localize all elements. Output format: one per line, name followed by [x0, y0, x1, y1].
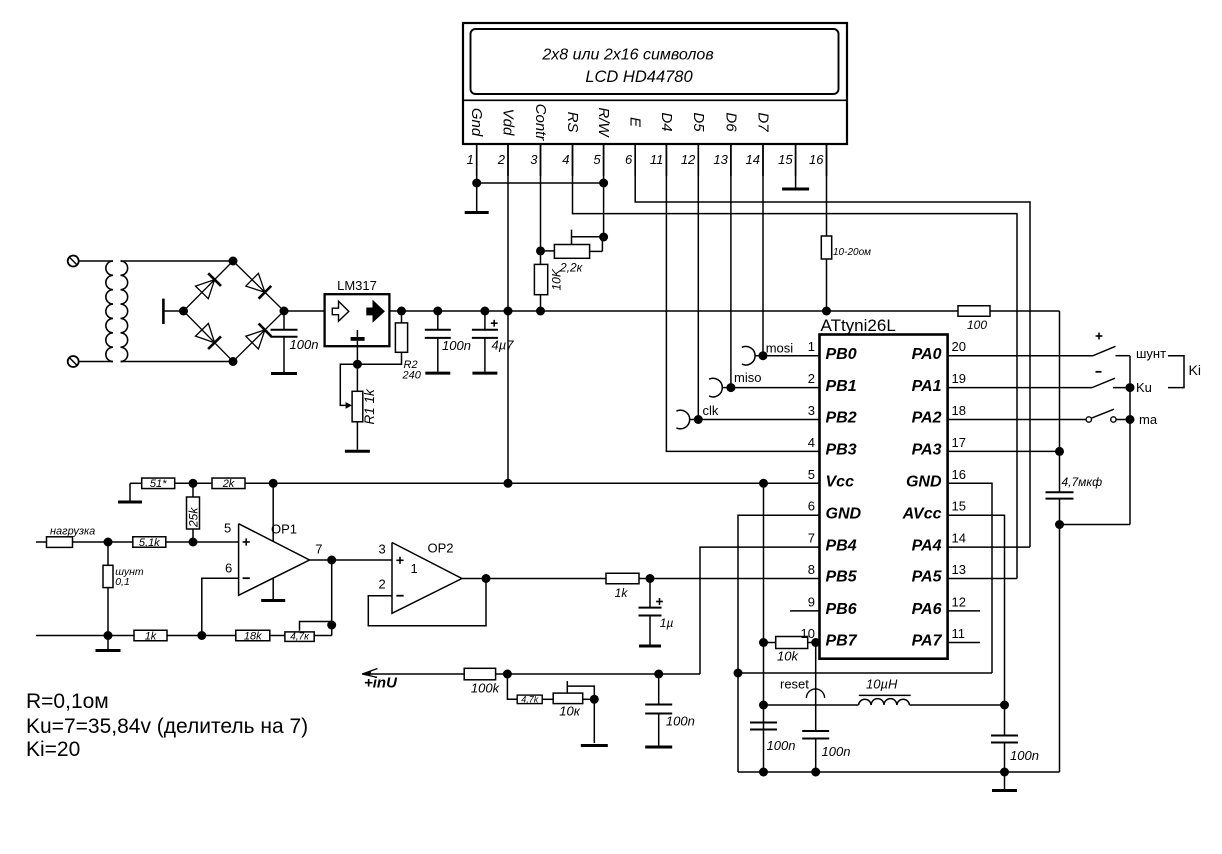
node 10k right: [590, 695, 599, 704]
svg-text:PB3: PB3: [826, 442, 857, 459]
svg-text:R/W: R/W: [595, 107, 612, 138]
wire resistor to rail: [826, 259, 828, 311]
regulator LM317 box: [325, 294, 390, 346]
svg-text:15: 15: [778, 152, 793, 167]
svg-text:D6: D6: [722, 112, 739, 132]
polarity + of 1u: [656, 601, 663, 603]
op-amp OP2: [392, 543, 462, 614]
svg-text:10µH: 10µH: [866, 677, 898, 692]
svg-text:reset: reset: [780, 677, 809, 692]
svg-text:2x8 или 2x16 символов: 2x8 или 2x16 символов: [541, 47, 713, 64]
wire OP1 ground stub: [272, 578, 274, 599]
svg-text:+inU: +inU: [364, 675, 398, 692]
wire 10k wiper tick: [566, 681, 568, 693]
svg-text:4µ7: 4µ7: [492, 338, 515, 353]
wire PA4 pin: [948, 546, 1030, 548]
svg-text:1µ: 1µ: [660, 616, 674, 630]
node 1u cap junction: [646, 574, 655, 583]
resistor 1k output: [606, 573, 639, 584]
ground below 4u7: [472, 372, 497, 375]
svg-text:6: 6: [225, 561, 232, 576]
resistor R2 240: [401, 311, 403, 323]
potentiometer R1 1k: [356, 364, 358, 391]
svg-text:5,1k: 5,1k: [139, 537, 160, 549]
wire 100 to corner: [990, 310, 1060, 312]
node 10k left: [759, 638, 768, 647]
svg-text:14: 14: [746, 152, 760, 167]
node 100n junction inU: [654, 670, 663, 679]
node feedback left: [197, 631, 206, 640]
node GND T: [734, 669, 743, 678]
transformer primary winding: [106, 261, 113, 362]
wire PB5 pin: [650, 578, 820, 580]
ground below OP1: [261, 599, 285, 602]
svg-text:16: 16: [809, 152, 824, 167]
svg-text:16: 16: [952, 467, 966, 482]
wire ma contact: [1116, 419, 1130, 421]
node clk: [694, 415, 703, 424]
capacitor 100n input: [283, 311, 285, 330]
svg-text:11: 11: [952, 626, 966, 641]
arrow +inU: [362, 673, 464, 675]
node ma: [1126, 415, 1135, 424]
svg-text:15: 15: [952, 499, 966, 514]
node Vdd Vcc-line junction: [504, 479, 513, 488]
ground below 100n: [425, 372, 450, 375]
wire R/W column: [603, 144, 605, 237]
svg-text:4: 4: [562, 152, 569, 167]
svg-text:GND: GND: [906, 474, 942, 491]
node bridge right: [280, 307, 289, 316]
wire Vcc net: [245, 482, 820, 484]
ground below LCD pin1: [465, 211, 489, 214]
wire bridge left to bar: [163, 310, 183, 312]
diode bridge lower-right: [246, 330, 265, 349]
resistor shunt 0,1: [107, 542, 109, 565]
capacitor 100n AVcc: [1004, 705, 1006, 736]
svg-text:PA3: PA3: [912, 442, 942, 459]
node 10K rail junction: [536, 307, 545, 316]
wire Vcc to inductor: [764, 704, 859, 706]
svg-text:0,1: 0,1: [115, 576, 130, 588]
ground below R1: [345, 450, 370, 453]
svg-text:D5: D5: [690, 112, 707, 132]
svg-text:1k: 1k: [615, 586, 629, 600]
svg-text:R1 1k: R1 1k: [362, 388, 377, 425]
wire secondary to bridge top: [121, 260, 234, 262]
wire cap to ground rail: [1059, 499, 1061, 772]
wire PA6 stub: [948, 610, 980, 612]
ground below 10k: [581, 744, 608, 747]
wire Gnd-R/W tie: [477, 182, 604, 184]
node PA3 cap junction: [1055, 447, 1064, 456]
terminal input top: [68, 256, 79, 267]
node Vcc inductor junction: [759, 701, 768, 710]
wire ground rail bottom: [738, 771, 1060, 773]
inductor 10uH: [859, 699, 910, 705]
svg-text:17: 17: [952, 435, 966, 450]
svg-text:Vcc: Vcc: [826, 474, 855, 491]
diode bridge lower-left: [196, 324, 215, 343]
node switch common junction: [1055, 520, 1064, 529]
ground symbol bottom: [1004, 772, 1006, 789]
svg-text:2: 2: [497, 152, 506, 167]
svg-text:5: 5: [224, 521, 231, 536]
svg-text:100n: 100n: [442, 338, 471, 353]
wire terminal to primary: [79, 260, 113, 262]
wire PA2 pin: [948, 419, 1087, 421]
pad mosi: [742, 346, 755, 365]
node 25k top: [189, 479, 198, 488]
switch contact circle right: [1111, 417, 1116, 422]
svg-text:13: 13: [713, 152, 728, 167]
svg-text:8: 8: [808, 562, 815, 577]
svg-text:PB4: PB4: [826, 537, 857, 554]
svg-text:Ku: Ku: [1136, 380, 1152, 395]
trimmer 2,2k contrast: [541, 250, 555, 252]
node 100n rail: [433, 307, 442, 316]
svg-text:Ku=7=35,84v (делитель на 7): Ku=7=35,84v (делитель на 7): [26, 715, 308, 738]
wire shunt contact: [1116, 355, 1131, 357]
svg-text:2: 2: [379, 577, 386, 592]
wire OP2 output: [462, 578, 606, 580]
node bridge bottom: [229, 357, 238, 366]
capacitor 1u electrolytic: [649, 579, 651, 608]
wire OP1 feedback drop: [331, 560, 333, 636]
svg-text:100n: 100n: [1010, 748, 1039, 763]
svg-text:PB1: PB1: [826, 378, 857, 395]
svg-text:14: 14: [952, 531, 966, 546]
wire D5 to PB2: [697, 144, 699, 420]
svg-text:R=0,1ом: R=0,1ом: [26, 690, 109, 713]
wire Gnd pin1 down: [476, 144, 478, 211]
wire Vdd column: [507, 144, 509, 483]
svg-text:mosi: mosi: [766, 341, 794, 356]
wire LM317 output to rail: [390, 310, 959, 312]
pad miso: [709, 378, 722, 397]
svg-text:11: 11: [650, 152, 664, 167]
LCD pin 2 lead: [507, 144, 509, 176]
svg-text:6: 6: [625, 152, 633, 167]
svg-text:4,7к: 4,7к: [290, 632, 310, 643]
node Vcc decoupling junction: [759, 479, 768, 488]
LCD screen area: [471, 29, 839, 94]
resistor 10-20om backlight: [821, 236, 831, 259]
svg-text:100n: 100n: [290, 337, 319, 352]
node AVcc cap gnd: [1000, 768, 1009, 777]
wire PB0 pin: [763, 355, 820, 357]
svg-text:13: 13: [952, 562, 966, 577]
ground below 100n inU: [645, 746, 672, 749]
OP2 plus sign: [396, 559, 403, 561]
node R/W tie: [599, 179, 608, 188]
wire OP2 feedback: [368, 579, 486, 626]
svg-text:3: 3: [379, 542, 386, 557]
trimmer 10k divider: [553, 693, 583, 704]
svg-text:Ki=20: Ki=20: [26, 738, 80, 761]
diode bridge upper-right: [246, 273, 265, 292]
resistor 2k: [212, 478, 245, 489]
svg-text:10-20ом: 10-20ом: [833, 247, 871, 258]
node 10k right PB7: [811, 638, 820, 647]
svg-text:100n: 100n: [666, 714, 695, 729]
resistor 100k: [464, 668, 495, 680]
svg-text:100: 100: [967, 318, 987, 332]
svg-text:10к: 10к: [559, 704, 580, 719]
svg-text:3: 3: [808, 403, 815, 418]
resistor 18k: [236, 630, 270, 641]
node Gnd pin1 tie: [472, 179, 481, 188]
OP1 minus sign: [243, 577, 250, 579]
resistor 100 series: [958, 306, 990, 317]
wire PA0 pin: [948, 355, 1093, 357]
wire RS to PA5: [573, 144, 1018, 579]
node miso: [726, 383, 735, 392]
switch blade Ku: [1092, 378, 1115, 387]
wire LM317 adj: [356, 341, 358, 364]
LCD pin 12 lead: [697, 144, 699, 176]
svg-text:9: 9: [808, 594, 815, 609]
node feedback right: [327, 621, 336, 630]
resistor 10k reset pullup: [764, 642, 776, 644]
wire OP1 output: [310, 559, 393, 561]
wire rail drop right: [1059, 311, 1061, 492]
diode bridge upper-left: [196, 280, 215, 299]
LCD pin strip divider: [463, 99, 847, 101]
svg-text:E: E: [627, 117, 644, 128]
svg-text:miso: miso: [734, 370, 761, 385]
wire 4,7k wiper: [300, 622, 332, 631]
wire E to PA4: [635, 144, 1030, 547]
svg-text:4: 4: [808, 435, 815, 450]
svg-text:LCD HD44780: LCD HD44780: [585, 68, 693, 86]
wire Ku contact: [1113, 387, 1130, 389]
ground at 51*: [129, 483, 131, 500]
label + above switch: [1096, 335, 1103, 337]
svg-text:ATtyni26L: ATtyni26L: [821, 316, 896, 335]
node R/W contrast: [599, 233, 608, 242]
wire switch common drop: [1129, 356, 1131, 525]
wire LCD pin15 down: [795, 144, 797, 188]
wire 2,2k wiper: [571, 230, 573, 245]
bridge rectifier frame: [184, 261, 285, 362]
ground below shunt node: [107, 636, 109, 650]
wire bridge to LM317: [284, 310, 325, 312]
svg-text:1: 1: [411, 561, 418, 576]
wire D6 to PB1: [730, 144, 732, 388]
svg-text:PA7: PA7: [912, 633, 943, 650]
resistor 5,1k: [133, 537, 166, 548]
svg-text:1: 1: [466, 152, 473, 167]
wire GND cross link: [738, 672, 992, 674]
svg-text:19: 19: [952, 371, 966, 386]
svg-text:2: 2: [808, 371, 815, 386]
svg-text:PB0: PB0: [826, 346, 857, 363]
svg-text:4,7мкф: 4,7мкф: [1062, 475, 1103, 489]
svg-text:PA5: PA5: [912, 569, 943, 586]
svg-text:clk: clk: [703, 403, 719, 418]
LCD pin 13 lead: [730, 144, 732, 176]
node Contr junction: [536, 246, 545, 255]
wire PB6 stub: [790, 610, 820, 612]
LCD pin 5 lead: [603, 144, 605, 176]
wire PB1 pin: [731, 387, 820, 389]
node R2 rail junction: [397, 307, 406, 316]
svg-text:Contr: Contr: [532, 104, 549, 142]
wire OP1 minus input: [202, 578, 239, 635]
LCD pin 4 lead: [572, 144, 574, 176]
MCU ATtiny26L box: [820, 335, 948, 659]
capacitor 100n inU: [658, 674, 660, 705]
svg-text:D7: D7: [755, 112, 772, 132]
svg-text:PB7: PB7: [826, 633, 858, 650]
svg-text:25k: 25k: [187, 507, 201, 528]
wire inductor to AVcc: [910, 704, 1005, 706]
ground below input cap: [271, 372, 297, 375]
node OP2 output: [482, 574, 491, 583]
wire PA7 stub: [948, 642, 980, 644]
svg-text:4,7k: 4,7k: [521, 695, 539, 705]
svg-text:12: 12: [681, 152, 696, 167]
switch contact circle left: [1086, 417, 1091, 422]
trimmer 4,7k feedback: [285, 632, 314, 642]
svg-text:1: 1: [808, 339, 815, 354]
load resistor nagruzka: [36, 541, 47, 543]
svg-text:шунт: шунт: [1136, 346, 1166, 361]
wire reset drop: [815, 643, 817, 732]
svg-text:100n: 100n: [822, 744, 851, 759]
terminal input bottom: [68, 356, 79, 367]
op-amp OP1: [239, 524, 310, 596]
svg-text:5: 5: [808, 467, 815, 482]
LM317 adj mark: [351, 337, 365, 341]
label - above switch: [1096, 371, 1102, 373]
wire branch drop: [507, 674, 517, 699]
svg-text:D4: D4: [658, 112, 675, 131]
svg-text:100k: 100k: [471, 681, 501, 696]
capacitor 100n output: [437, 311, 439, 330]
resistor 25k: [187, 497, 200, 529]
reset wire hop arc: [806, 689, 824, 698]
svg-text:3: 3: [530, 152, 538, 167]
pad clk: [676, 410, 689, 429]
wire D4 to PB3: [666, 144, 819, 451]
polarity + of 4u7: [491, 322, 498, 324]
node bridge top: [229, 257, 238, 266]
resistor 1k input: [134, 630, 167, 641]
svg-text:18k: 18k: [244, 630, 262, 642]
node Vdd rail junction: [504, 307, 513, 316]
svg-text:PA0: PA0: [912, 346, 942, 363]
switch blade ma: [1091, 409, 1114, 418]
wire PB2 pin: [698, 419, 819, 421]
wire AVcc pin: [948, 515, 1005, 705]
svg-text:Ki: Ki: [1189, 362, 1201, 378]
LCD pin 14 lead: [762, 144, 764, 176]
node OP1 output: [327, 556, 336, 565]
resistor 10K contrast: [540, 251, 542, 265]
svg-text:PA4: PA4: [912, 537, 942, 554]
node pin16 rail junction: [822, 307, 831, 316]
svg-text:ma: ma: [1139, 412, 1158, 427]
LCD pin 16 lead: [826, 144, 828, 176]
wire GND16 pin: [948, 483, 992, 673]
LCD module HD44780 box: [463, 23, 847, 144]
node mosi: [759, 351, 768, 360]
LM317 input arrow: [332, 301, 349, 321]
node 25k bottom: [189, 538, 198, 547]
ground below 1u: [639, 645, 661, 648]
svg-text:PB5: PB5: [826, 569, 858, 586]
svg-text:OP2: OP2: [428, 541, 454, 556]
wire PA1 pin: [948, 387, 1092, 389]
wire 10k to ground: [593, 699, 595, 743]
ground below LCD pin15: [782, 188, 809, 191]
node bridge left: [179, 307, 188, 316]
svg-text:12: 12: [952, 594, 966, 609]
LM317 output arrow: [367, 301, 384, 321]
capacitor 4,7mkf: [1046, 491, 1074, 493]
svg-text:нагрузка: нагрузка: [50, 526, 95, 538]
LCD pin 11 lead: [665, 144, 667, 176]
svg-text:1k: 1k: [145, 630, 157, 642]
bracket Ki: [1168, 356, 1184, 388]
node 100k branch: [503, 670, 512, 679]
OP1 plus sign: [243, 541, 250, 543]
wire switch common link: [1060, 524, 1131, 526]
wire D7 to PB0: [762, 144, 764, 356]
svg-text:PA1: PA1: [912, 378, 942, 395]
svg-text:GND: GND: [826, 505, 862, 522]
svg-text:2,2к: 2,2к: [559, 261, 584, 275]
svg-text:20: 20: [952, 339, 966, 354]
wire secondary to bridge bottom: [121, 361, 234, 363]
switch blade shunt: [1093, 346, 1116, 355]
node 2k right OP1 power: [269, 479, 278, 488]
node Vcc cap gnd: [759, 768, 768, 777]
svg-text:Vdd: Vdd: [500, 109, 517, 136]
svg-text:100n: 100n: [767, 738, 796, 753]
node Ku: [1126, 383, 1135, 392]
resistor 4,7k divider: [517, 695, 542, 704]
LCD pin 3 lead: [540, 144, 542, 176]
wire Contr column: [540, 144, 542, 251]
svg-text:7: 7: [808, 531, 815, 546]
svg-text:6: 6: [808, 499, 815, 514]
svg-text:2k: 2k: [222, 478, 235, 490]
wire 10k wiper arm: [567, 686, 594, 699]
OP2 minus sign: [396, 595, 403, 597]
node AVcc junction: [1000, 701, 1009, 710]
LCD pin 15 lead: [795, 144, 797, 176]
svg-text:PB6: PB6: [826, 601, 857, 618]
wire PA3 pin: [948, 450, 1060, 452]
LM317 adj inner stub: [356, 330, 358, 337]
wire 100k to PB4 corner: [496, 673, 700, 675]
wire GND pin6: [738, 515, 820, 772]
node adj junction: [353, 360, 362, 369]
LCD pin 6 lead: [634, 144, 636, 176]
R1 wiper arrow: [340, 364, 357, 405]
svg-text:LM317: LM317: [337, 278, 377, 293]
svg-text:240: 240: [402, 370, 422, 382]
svg-text:18: 18: [952, 403, 966, 418]
svg-text:PA2: PA2: [912, 410, 942, 427]
inductor over-line: [859, 694, 911, 696]
node load junction: [104, 538, 113, 547]
svg-text:AVcc: AVcc: [902, 505, 942, 522]
node reset cap gnd: [811, 768, 820, 777]
